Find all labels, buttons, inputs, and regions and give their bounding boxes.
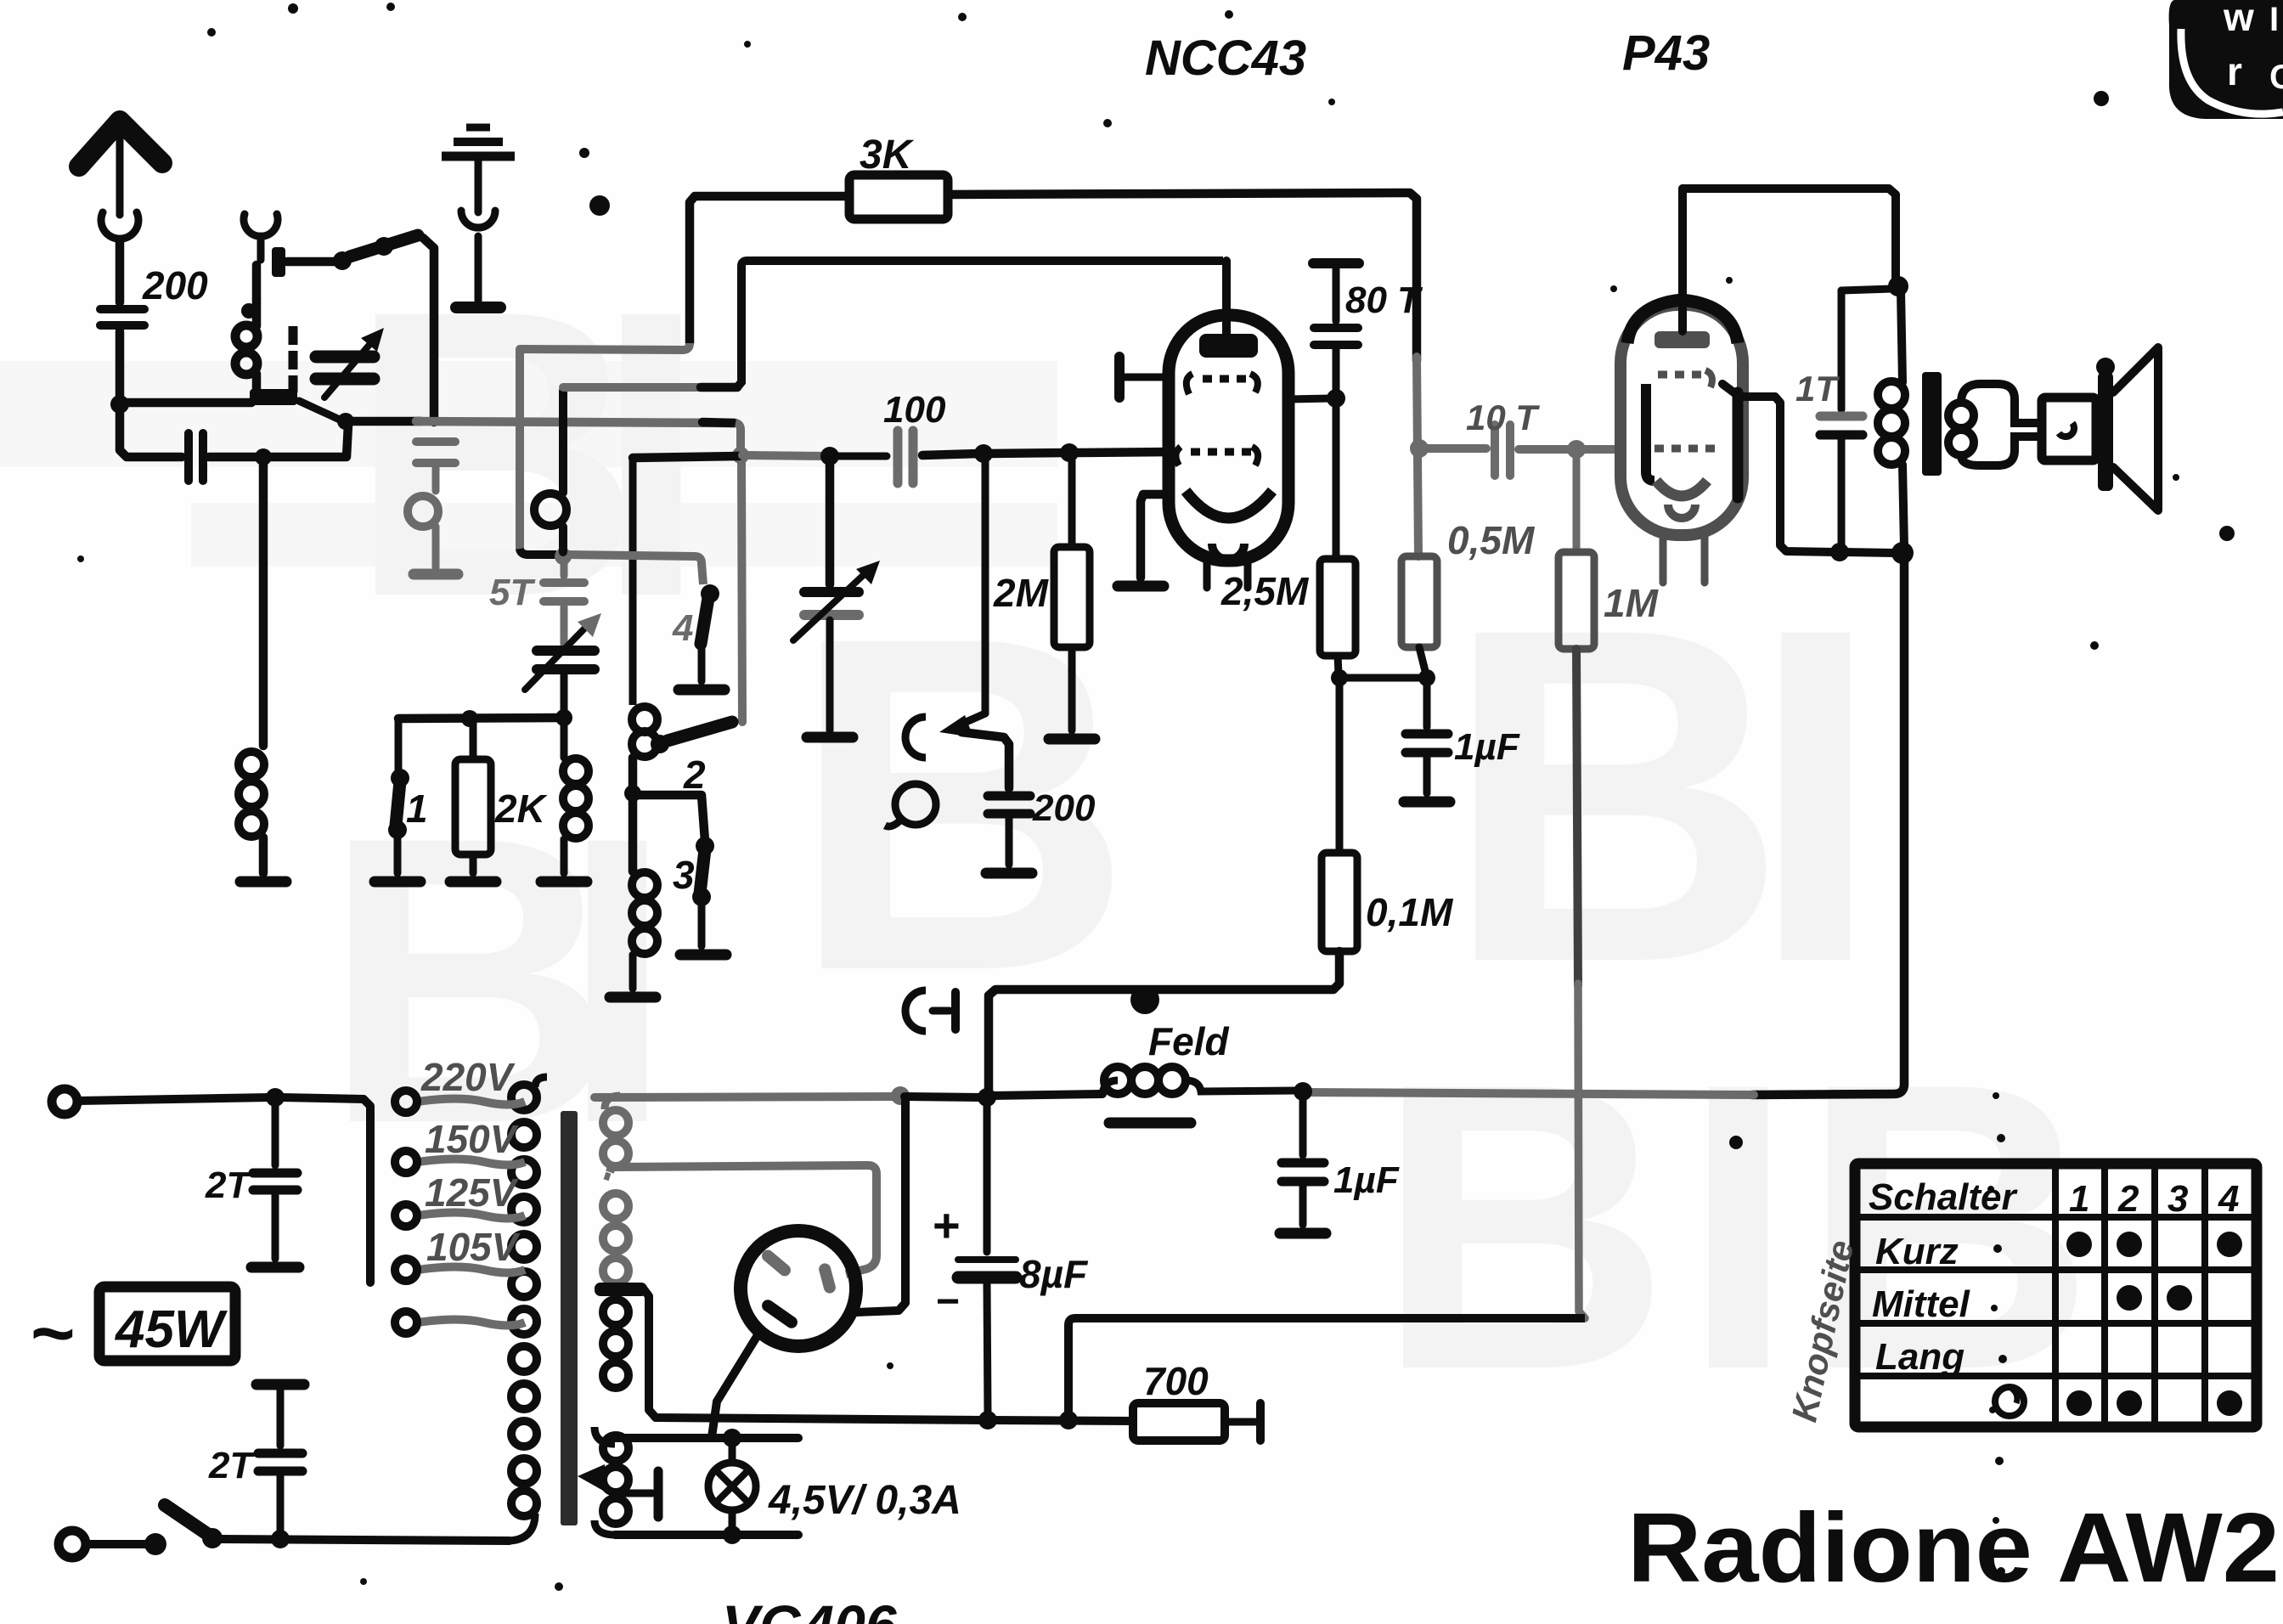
node A junction bbox=[110, 395, 129, 414]
capacitor 1T branch bbox=[1841, 289, 1892, 290]
svg-text:C: C bbox=[2269, 59, 2283, 96]
svg-text:2T: 2T bbox=[205, 1164, 251, 1206]
series coupling capacitor bbox=[184, 433, 193, 481]
P43 screen grid bbox=[1646, 384, 1654, 481]
svg-text:P43: P43 bbox=[1622, 25, 1710, 81]
wire grid line to phono bbox=[982, 454, 989, 713]
coil assembly bottom bar bbox=[250, 389, 297, 405]
speaker driver box bbox=[2042, 398, 2096, 460]
chassis bar (2T upper) bbox=[251, 1262, 299, 1273]
capacitor 80T terminal bar bbox=[1313, 258, 1359, 268]
junction band coils bbox=[624, 785, 641, 802]
capacitor 200 (phono) bbox=[988, 792, 1030, 801]
NCC43 heater pins bbox=[1204, 561, 1211, 588]
primary tap wires bbox=[418, 1099, 525, 1105]
P43 glass dark side bbox=[1733, 392, 1744, 498]
earth electrode symbol bbox=[466, 124, 490, 132]
mains terminal lower bbox=[59, 1531, 86, 1558]
ground (NCC43 cathode) bbox=[1118, 581, 1164, 592]
wire 3K left leg bbox=[690, 196, 849, 343]
switch 1 drop bbox=[395, 719, 403, 773]
trimmer arrow bbox=[324, 340, 374, 398]
wire row y=845 bbox=[398, 718, 561, 719]
oscillator coil bbox=[555, 709, 572, 726]
ground (band coil) bbox=[610, 992, 656, 1003]
capacitor 2T upper bbox=[272, 1101, 279, 1165]
svg-text:B: B bbox=[1376, 998, 1671, 1454]
speaker horn bbox=[2113, 347, 2158, 510]
tube P43 envelope bbox=[1621, 305, 1743, 535]
svg-text:w: w bbox=[2223, 0, 2254, 39]
node B (grid line start) bbox=[337, 413, 354, 430]
HV secondary tap bbox=[605, 1176, 610, 1177]
switch table frame bbox=[1855, 1164, 2257, 1427]
svg-text:4,5V/ 0,3A: 4,5V/ 0,3A bbox=[768, 1478, 961, 1523]
junction 80T / grid2 of NCC43 bbox=[1327, 389, 1345, 408]
P43 anode plate bbox=[1654, 331, 1710, 348]
feedback tickler coil bbox=[559, 391, 567, 493]
ground (shortwave branch) bbox=[414, 569, 458, 580]
wire P43 anode to primary top bbox=[1683, 189, 1896, 280]
junction 1M bbox=[1567, 440, 1586, 459]
shortwave branch capacitor bbox=[416, 437, 455, 446]
capacitor 200 (antenna series cap) bbox=[100, 305, 144, 313]
wire 0,1M to B+ node bbox=[989, 951, 1339, 1092]
svg-text:2: 2 bbox=[2117, 1178, 2139, 1220]
NCC43 cathode bbox=[1186, 491, 1272, 518]
svg-text:1M: 1M bbox=[1604, 581, 1660, 625]
svg-text:Kurz: Kurz bbox=[1875, 1231, 1959, 1272]
resistor 0,5M bbox=[1401, 556, 1437, 647]
antenna jack socket bbox=[101, 212, 138, 239]
wire node A down to coupling cap bbox=[120, 404, 182, 457]
tube NCC43 envelope bbox=[1169, 315, 1288, 561]
svg-text:1µF: 1µF bbox=[1454, 726, 1520, 768]
output transformer secondary bbox=[1948, 403, 1974, 428]
svg-text:Mittel: Mittel bbox=[1872, 1283, 1970, 1325]
svg-text:Lang: Lang bbox=[1875, 1336, 1965, 1378]
switch 2 pivot bbox=[651, 735, 669, 753]
ground (antenna coil) bbox=[240, 877, 286, 888]
NCC43 anode plate bbox=[1199, 334, 1258, 358]
svg-text:2: 2 bbox=[683, 753, 706, 797]
svg-text:r: r bbox=[2227, 49, 2242, 93]
svg-text:I: I bbox=[1682, 998, 1795, 1454]
wire HV secondary to junction bbox=[595, 1097, 896, 1097]
switch 4 lever bbox=[701, 598, 708, 644]
rectifier heater lead bbox=[712, 1335, 758, 1437]
shortwave branch coil bbox=[408, 496, 438, 527]
junction 8uF on heater bias line bbox=[978, 1411, 997, 1429]
resistor 700 bbox=[1133, 1403, 1225, 1441]
svg-text:Radione AW2: Radione AW2 bbox=[1627, 1492, 2280, 1603]
wire junction down to rectifier pin bbox=[856, 1099, 905, 1312]
wire antenna jack to C 200 bbox=[116, 240, 125, 302]
NCC43 cathode lead to ground bbox=[1141, 494, 1169, 578]
wire grid line to band coils bbox=[629, 458, 637, 705]
antenna selector switch lever bbox=[350, 235, 418, 257]
svg-text:1: 1 bbox=[406, 787, 428, 831]
ground (2M) bbox=[1049, 734, 1095, 745]
ground (1uF) bbox=[1404, 797, 1450, 808]
resistor 0,1M bbox=[1336, 678, 1344, 853]
wire tickler to anode riser bbox=[563, 383, 707, 392]
wire junction to switch 3 bbox=[633, 795, 705, 841]
ground (switch 3) bbox=[680, 950, 726, 961]
wire to tuning capacitor bbox=[826, 458, 835, 584]
junction 2T lower bbox=[271, 1530, 290, 1548]
mains terminal upper bbox=[52, 1089, 77, 1114]
junction after Feld bbox=[1294, 1082, 1312, 1101]
wire 2,5M to 0,5M bottoms bbox=[1339, 674, 1427, 682]
svg-text:1T: 1T bbox=[1795, 369, 1840, 409]
svg-text:150V: 150V bbox=[425, 1117, 519, 1161]
ground (2K) bbox=[450, 877, 496, 888]
antenna coil top stem and plug bbox=[252, 265, 262, 299]
HV secondary winding bbox=[605, 1096, 620, 1109]
switch 4 wire from node C bbox=[567, 555, 703, 584]
antenna ground coil bbox=[239, 752, 264, 777]
svg-text:Schalter: Schalter bbox=[1869, 1176, 2019, 1218]
ground (switch 1) bbox=[375, 877, 420, 888]
mains voltage selector plug bbox=[364, 1099, 370, 1283]
wire output junction down (B+) bbox=[1900, 557, 1909, 1084]
ground (osc coil) bbox=[541, 877, 587, 888]
rated power box 45W bbox=[99, 1287, 235, 1361]
svg-text:~: ~ bbox=[31, 1291, 76, 1376]
switch 3 lever bbox=[700, 849, 705, 894]
capacitor 2T lower chassis bar bbox=[256, 1379, 304, 1390]
wire NCC43 to 80T column bbox=[1288, 398, 1332, 399]
phono jack lower bbox=[905, 990, 926, 1031]
NCC43 grid cap terminal bbox=[1114, 357, 1125, 398]
coil core dashes bbox=[289, 326, 298, 345]
logo stamp bbox=[2169, 0, 2283, 119]
svg-text:I: I bbox=[2269, 1, 2279, 38]
wire phono to 200 cap bbox=[961, 732, 1009, 788]
resistor 2K bbox=[470, 719, 477, 759]
ground (200 cap) bbox=[986, 868, 1032, 879]
band coil section b bbox=[632, 872, 657, 898]
junction on antenna lead bbox=[255, 448, 272, 465]
band coil section a bbox=[632, 707, 657, 732]
svg-text:0,5M: 0,5M bbox=[1447, 518, 1536, 562]
svg-text:700: 700 bbox=[1143, 1359, 1209, 1403]
pickup symbol bbox=[895, 784, 936, 825]
transformer core bbox=[561, 1111, 578, 1525]
wire lever to shortwave branch bbox=[423, 238, 434, 422]
grid line horizontal bbox=[633, 456, 739, 458]
ground (switch 4) bbox=[679, 685, 724, 696]
svg-text:220V: 220V bbox=[420, 1055, 516, 1099]
svg-text:8µF: 8µF bbox=[1019, 1252, 1089, 1296]
main tuning capacitor bbox=[804, 587, 859, 597]
capacitor 2T lower bbox=[258, 1449, 302, 1458]
primary winding bbox=[535, 1077, 547, 1087]
wire down to antenna ground coil bbox=[259, 457, 268, 746]
switch 2 lever bbox=[668, 722, 732, 741]
junction 1T bottom bbox=[1830, 543, 1849, 561]
wire C200 to node A bbox=[116, 331, 125, 399]
svg-text:I: I bbox=[1750, 529, 1882, 1061]
earth post bbox=[475, 236, 482, 301]
heater winding bbox=[603, 1300, 629, 1325]
svg-text:125V: 125V bbox=[425, 1170, 519, 1215]
junction rectifier anode line bbox=[891, 1086, 910, 1105]
junction B+ node bbox=[978, 1088, 996, 1107]
resistor 1M bbox=[1573, 452, 1581, 552]
antenna symbol bbox=[79, 121, 162, 166]
svg-text:5T: 5T bbox=[489, 572, 535, 613]
mains switch bbox=[144, 1533, 166, 1555]
junction 2T upper bbox=[266, 1088, 285, 1107]
resistor 3K bbox=[849, 175, 948, 219]
svg-text:3K: 3K bbox=[860, 133, 915, 178]
wire node B to grid riser bbox=[346, 417, 421, 426]
svg-text:3: 3 bbox=[673, 853, 695, 897]
switch 1 lever bbox=[396, 781, 400, 826]
svg-text:2M: 2M bbox=[993, 571, 1050, 615]
svg-text:B: B bbox=[1801, 998, 2095, 1454]
svg-text:80 T: 80 T bbox=[1345, 279, 1423, 321]
junction primary top bbox=[1888, 276, 1908, 296]
capacitor 80T bbox=[1314, 324, 1358, 332]
heater tap (4V) bbox=[595, 1283, 647, 1296]
P43 screen lead bbox=[1722, 384, 1835, 552]
watermark background bbox=[0, 225, 2095, 1454]
antenna coupling coil L1 bbox=[235, 325, 257, 347]
wire node A to antenna coil bbox=[120, 398, 251, 408]
junction 10T line bbox=[1410, 439, 1429, 458]
speaker diaphragm bar bbox=[2098, 372, 2113, 491]
NCC43 screen grid dashes bbox=[1187, 374, 1192, 394]
paper speckles bbox=[579, 148, 589, 158]
svg-text:100: 100 bbox=[883, 389, 946, 431]
svg-text:200: 200 bbox=[142, 263, 208, 307]
svg-text:3: 3 bbox=[2167, 1178, 2188, 1220]
pilot lamp 4,5V/0,3A bbox=[729, 1442, 736, 1463]
P43 cathode bbox=[1656, 481, 1707, 496]
wire junction to grid-line riser bbox=[263, 425, 348, 457]
field coil core bar bbox=[1109, 1118, 1191, 1129]
svg-text:1µF: 1µF bbox=[1333, 1159, 1400, 1201]
svg-text:45W: 45W bbox=[114, 1300, 228, 1359]
wire switch to primary bottom bbox=[219, 1539, 510, 1541]
output transformer primary bbox=[1901, 290, 1902, 382]
P43 control grid dashes bbox=[1654, 445, 1664, 453]
switch pivot (antenna selector) bbox=[333, 251, 352, 270]
capacitor 1uF (field) bbox=[1299, 1094, 1307, 1155]
pilot lamp rails bbox=[595, 1427, 615, 1444]
earth jack socket bbox=[461, 211, 495, 228]
resistor 2,5M bbox=[1320, 559, 1356, 656]
capacitor 100 (grid coupling) bbox=[893, 431, 903, 483]
svg-text:1: 1 bbox=[2069, 1178, 2089, 1220]
wire 3K right leg bbox=[948, 193, 1417, 361]
wire 1M to bias line bbox=[1576, 649, 1578, 985]
row gramophone bbox=[1995, 1387, 2024, 1416]
P43 anode stem bbox=[1678, 189, 1687, 331]
svg-text:4: 4 bbox=[672, 607, 693, 649]
svg-text:0,1M: 0,1M bbox=[1366, 890, 1454, 934]
svg-text:4: 4 bbox=[2218, 1178, 2239, 1220]
wire secondary tap to rectifier bbox=[610, 1165, 877, 1274]
phono arrow bbox=[955, 713, 985, 727]
svg-text:VG406: VG406 bbox=[722, 1593, 898, 1624]
wire to node junction bbox=[209, 453, 260, 462]
pilot winding bbox=[603, 1435, 629, 1461]
svg-text:2T: 2T bbox=[208, 1445, 255, 1486]
junction grid line bbox=[732, 447, 749, 464]
P43 heater pins bbox=[1660, 535, 1667, 583]
transformer core bbox=[1922, 372, 1942, 476]
capacitor 10T bbox=[1491, 425, 1499, 476]
ground (1uF field) bbox=[1280, 1228, 1326, 1239]
svg-text:200: 200 bbox=[1032, 787, 1096, 829]
phono jack upper bbox=[905, 717, 926, 758]
svg-text:105V: 105V bbox=[426, 1225, 521, 1269]
capacitor 1uF (bias) bbox=[1423, 679, 1431, 727]
capacitor 8uF bbox=[984, 1097, 991, 1252]
NCC43 control grid dashes bbox=[1175, 447, 1181, 465]
rectifier socket VG406 bbox=[741, 1231, 856, 1346]
regeneration trimmer bbox=[561, 606, 568, 644]
wire assembly to node B bbox=[299, 401, 341, 420]
svg-text:+: + bbox=[933, 1198, 961, 1252]
svg-text:2K: 2K bbox=[494, 787, 548, 831]
heater bias line bbox=[1059, 1411, 1078, 1429]
svg-text:2,5M: 2,5M bbox=[1220, 569, 1310, 613]
NCC43 anode stem bbox=[1222, 261, 1231, 334]
junction output B+ bbox=[1891, 542, 1914, 564]
wire plug to switch pivot bbox=[287, 257, 336, 267]
node C junction bbox=[555, 548, 572, 565]
return line riser bbox=[1068, 1318, 1585, 1415]
antenna trimmer capacitor plates bbox=[316, 351, 374, 364]
wire grid junction down to band switch 2 bbox=[741, 459, 742, 722]
capacitor 5T bbox=[561, 561, 568, 576]
heater winding terminal bar bbox=[625, 1490, 652, 1497]
svg-text:10 T: 10 T bbox=[1466, 398, 1540, 437]
resistor 2M bbox=[1068, 453, 1076, 547]
ground (tuning capacitor) bbox=[807, 732, 853, 743]
svg-text:Feld: Feld bbox=[1148, 1019, 1229, 1063]
svg-text:−: − bbox=[936, 1279, 960, 1324]
svg-text:NCC43: NCC43 bbox=[1145, 31, 1306, 86]
